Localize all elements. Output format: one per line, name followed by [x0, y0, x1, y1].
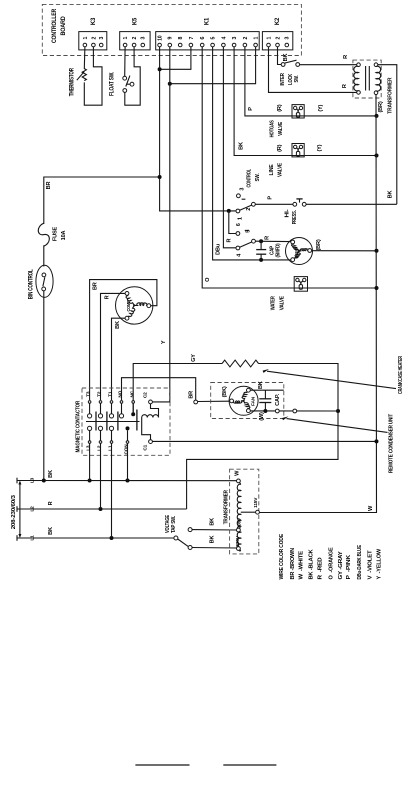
- transformer core: [365, 66, 367, 91]
- svg-text:W: W: [368, 505, 374, 511]
- svg-text:BOARD: BOARD: [61, 16, 67, 36]
- svg-text:SW.: SW.: [294, 75, 300, 82]
- junction L1 on line3: [110, 536, 114, 540]
- tap 115V: [241, 510, 260, 514]
- contactor pole L2: [98, 403, 107, 443]
- svg-text:2: 2: [246, 208, 252, 211]
- junction BR branch on pin10 line: [158, 175, 162, 179]
- svg-text:L1: L1: [29, 535, 35, 541]
- svg-text:(BR): (BR): [316, 239, 322, 250]
- label FUSE 10A: [53, 226, 67, 241]
- interlock switch: [281, 60, 299, 66]
- svg-text:10A: 10A: [61, 231, 67, 241]
- wire K1 pin4 R to control sw4: [223, 47, 236, 248]
- fuse 10A: [38, 223, 49, 246]
- tap 230V: [237, 547, 241, 551]
- svg-text:TAP SW.: TAP SW.: [171, 515, 177, 533]
- svg-text:R: R: [48, 501, 54, 505]
- svg-text:K3: K3: [91, 17, 97, 25]
- svg-text:L3: L3: [85, 445, 91, 451]
- svg-text:230V: 230V: [235, 535, 241, 546]
- input line L2 R: [17, 508, 187, 510]
- svg-text:7: 7: [189, 37, 195, 40]
- svg-text:R -RED: R -RED: [318, 557, 324, 579]
- fan motor: [229, 386, 258, 415]
- wire K2 pin1 R to transformer: [269, 47, 357, 93]
- wire K1 pin9 Y to contactor C2: [153, 47, 170, 402]
- svg-text:9: 9: [168, 37, 174, 40]
- svg-text:VALVE: VALVE: [280, 296, 286, 310]
- wire fan feed terminal to fan: [198, 400, 230, 402]
- contactor linkage: [86, 421, 140, 423]
- svg-text:3: 3: [141, 37, 147, 40]
- connector K5: [120, 32, 150, 50]
- label VOLTAGE TAP SW.: [165, 515, 177, 533]
- wire pump to BR bus: [312, 250, 377, 252]
- wire comp R to contactor T2: [101, 293, 126, 400]
- svg-text:(W): (W): [259, 412, 265, 421]
- wire K1 pin1 jog to pin9 line: [170, 47, 256, 84]
- svg-text:CON: CON: [123, 444, 129, 455]
- svg-text:6: 6: [200, 37, 206, 40]
- svg-text:R: R: [104, 295, 110, 299]
- svg-text:L2: L2: [29, 506, 35, 512]
- label CAP (5MFD): [270, 243, 282, 257]
- wire C1 to BR bus: [152, 440, 376, 442]
- svg-text:REMOTE CONDENSER UNIT: REMOTE CONDENSER UNIT: [389, 413, 395, 473]
- svg-text:BR: BR: [189, 391, 195, 399]
- svg-text:5: 5: [245, 230, 251, 233]
- label WATER VALVE: [270, 296, 285, 310]
- wire K1 pin7 jog to pin10 line: [160, 47, 191, 70]
- svg-text:K5: K5: [132, 17, 138, 25]
- transformer primary coil: [354, 63, 360, 94]
- bottom rule 2: [223, 764, 276, 766]
- svg-text:TRANSFORMER: TRANSFORMER: [224, 490, 230, 524]
- wire K1 pin3 BK to line valve line: [234, 47, 376, 156]
- svg-text:BR -BROWN: BR -BROWN: [290, 548, 296, 580]
- input line L1 BK: [17, 537, 174, 539]
- wire fan bottom line: [250, 410, 338, 412]
- svg-text:HOTGAS: HOTGAS: [270, 120, 276, 137]
- svg-text:3: 3: [232, 37, 238, 40]
- fan feed terminal: [194, 400, 198, 404]
- svg-text:BK: BK: [210, 536, 216, 544]
- contactor pole L1: [109, 403, 118, 443]
- junction BR on line1: [42, 479, 46, 483]
- connector K3: [79, 32, 107, 50]
- label LINE VALVE: [269, 163, 284, 177]
- svg-text:L1: L1: [107, 445, 113, 451]
- wire NC GY to crankcase heater: [133, 364, 222, 413]
- svg-text:3: 3: [99, 37, 105, 40]
- label INTER LOCK SW.: [280, 73, 300, 86]
- svg-text:SW.: SW.: [255, 173, 261, 182]
- wire control sw pole2 to pump: [255, 240, 290, 242]
- wire float switch loop to K5 pin2: [125, 47, 140, 105]
- svg-text:208V: 208V: [237, 517, 243, 528]
- line valve solenoid: [292, 144, 304, 157]
- svg-text:R: R: [264, 236, 270, 240]
- svg-text:W -WHITE: W -WHITE: [299, 551, 305, 580]
- wire color code legend: [279, 534, 383, 580]
- svg-text:CONTROLLER: CONTROLLER: [52, 8, 58, 43]
- svg-text:BK: BK: [388, 191, 394, 199]
- capacitor pump 5MFD: [256, 241, 266, 260]
- svg-text:W: W: [235, 470, 241, 476]
- wire BR branch from pin10 line: [44, 177, 160, 224]
- junction control feed: [227, 209, 231, 213]
- crankcase heater resistor: [222, 360, 258, 367]
- svg-text:FUSE: FUSE: [53, 226, 59, 241]
- svg-text:HI-: HI-: [284, 209, 290, 217]
- label CONTROLLER BOARD: [52, 8, 67, 43]
- svg-text:GY -GRAY: GY -GRAY: [338, 551, 344, 580]
- junction pump cap top: [259, 239, 263, 243]
- junction pump on BR bus: [375, 249, 379, 253]
- svg-text:T2: T2: [96, 391, 102, 397]
- svg-text:(R): (R): [277, 104, 283, 112]
- svg-text:5: 5: [211, 37, 217, 40]
- wire bin control to input line L3: [43, 291, 45, 481]
- float switch: [123, 76, 134, 93]
- hot gas valve solenoid: [292, 105, 304, 118]
- wire fuse to bin control: [43, 245, 45, 266]
- svg-text:PRESS.: PRESS.: [292, 210, 298, 224]
- svg-text:115V: 115V: [253, 497, 259, 508]
- svg-text:BK -BLACK: BK -BLACK: [308, 549, 314, 579]
- wire transformer BK down right side: [378, 65, 397, 205]
- svg-text:(BR): (BR): [378, 101, 384, 112]
- magnetic contactor dashed box: [82, 388, 170, 455]
- svg-text:1: 1: [123, 37, 129, 40]
- input terminal ticks: [16, 478, 18, 484]
- svg-text:MAGNETIC CONTACTOR: MAGNETIC CONTACTOR: [76, 401, 82, 453]
- svg-text:P -PINK: P -PINK: [346, 555, 352, 580]
- hi-press switch: [293, 199, 306, 206]
- wire K1 pin10 BR feed to control switch: [160, 47, 236, 211]
- svg-text:2: 2: [275, 37, 281, 40]
- svg-text:BR: BR: [92, 282, 98, 290]
- wire contactor CON down: [127, 443, 129, 480]
- contactor pole L3: [88, 403, 97, 443]
- input line L3 BK: [17, 480, 237, 482]
- svg-text:BK: BK: [283, 54, 289, 62]
- control switch contacts: [236, 194, 255, 250]
- svg-text:BK: BK: [115, 321, 121, 329]
- wire tap sw to 208V: [192, 529, 236, 531]
- wire comp BK to contactor T1: [112, 318, 126, 400]
- BR bus from transformer: [259, 95, 376, 513]
- wire hi-press to BK corner: [306, 203, 397, 205]
- svg-text:R: R: [343, 55, 349, 59]
- water valve solenoid: [294, 277, 307, 292]
- wire K2 pin2 to interlock switch: [278, 47, 282, 65]
- svg-text:THERMISTOR: THERMISTOR: [70, 68, 76, 97]
- svg-text:R: R: [227, 239, 233, 243]
- transformer dashed box: [353, 60, 381, 98]
- svg-text:(Y): (Y): [317, 144, 323, 151]
- junction L2 on line2: [99, 507, 103, 511]
- junction fan return on heater wire: [336, 409, 340, 413]
- svg-text:BK: BK: [48, 527, 54, 535]
- wire control sw2 P to hi-press: [255, 203, 293, 205]
- svg-text:C1: C1: [142, 444, 148, 450]
- svg-text:BIN CONTROL: BIN CONTROL: [29, 269, 35, 299]
- label HI- PRESS.: [284, 209, 298, 224]
- wire thermistor loop to K3 pin2: [84, 47, 102, 105]
- wire contactor L2 down: [100, 443, 102, 509]
- svg-text:1: 1: [238, 217, 244, 220]
- control transformer dashed box: [230, 469, 259, 554]
- svg-text:(BK): (BK): [222, 386, 228, 397]
- svg-text:VALVE: VALVE: [278, 163, 284, 177]
- svg-text:L3: L3: [29, 477, 35, 483]
- svg-text:INTER: INTER: [280, 73, 286, 86]
- junction L3 on line1: [88, 479, 92, 483]
- svg-text:NO: NO: [117, 390, 123, 397]
- svg-text:O -ORANGE: O -ORANGE: [329, 547, 335, 579]
- connector K2: [262, 32, 292, 50]
- wire tap sw to 230V: [192, 547, 236, 550]
- svg-text:3: 3: [240, 188, 246, 191]
- svg-text:K2: K2: [275, 17, 281, 25]
- svg-text:K1: K1: [205, 17, 211, 25]
- wire K1 pin5 DBu to pump line: [213, 47, 291, 260]
- svg-text:LOCK: LOCK: [288, 74, 294, 85]
- wire control feed branch to sw5: [229, 211, 236, 234]
- svg-text:P: P: [268, 196, 274, 200]
- controller board dashed outline: [42, 4, 301, 55]
- contactor coil: [142, 404, 159, 440]
- svg-text:6: 6: [236, 223, 242, 226]
- svg-text:C2: C2: [142, 392, 148, 398]
- svg-text:2: 2: [91, 37, 97, 40]
- svg-text:2: 2: [132, 37, 138, 40]
- svg-text:DBu-DARK BLUE: DBu-DARK BLUE: [357, 545, 363, 580]
- wire K1 pin2 P to hot gas valve line: [245, 47, 377, 116]
- svg-text:BK: BK: [48, 470, 54, 478]
- svg-text:R: R: [342, 84, 348, 88]
- bottom rule 1: [135, 764, 189, 766]
- junction pin7/pin10: [158, 67, 162, 71]
- svg-text:1: 1: [266, 37, 272, 40]
- svg-text:1: 1: [83, 37, 89, 40]
- svg-text:BK: BK: [239, 142, 245, 150]
- svg-text:LINE: LINE: [269, 164, 275, 175]
- wire comp OL loop to contactor T3: [90, 280, 157, 400]
- dimension arrow 208-230: [19, 483, 21, 537]
- wire K3 pin1 to thermistor: [83, 47, 86, 69]
- contactor NO contact: [119, 403, 129, 443]
- connector K1: [156, 32, 260, 50]
- svg-text:BR: BR: [46, 182, 52, 190]
- svg-text:WIRE COLOR CODE: WIRE COLOR CODE: [279, 534, 285, 580]
- svg-text:8: 8: [178, 37, 184, 40]
- svg-text:WATER: WATER: [270, 296, 276, 310]
- label CONTROL SW.: [246, 169, 261, 188]
- wire heater to R return: [187, 364, 338, 510]
- svg-text:4: 4: [221, 37, 227, 40]
- svg-text:P: P: [248, 107, 254, 111]
- junction C1 on BR bus: [375, 439, 379, 443]
- svg-text:BK: BK: [210, 518, 216, 526]
- svg-text:2: 2: [243, 37, 249, 40]
- svg-text:(Y): (Y): [318, 104, 324, 111]
- svg-text:DBu: DBu: [216, 243, 222, 255]
- wire K1 pin6 O to water valve line: [202, 47, 376, 288]
- svg-text:T3: T3: [85, 391, 91, 397]
- fan line connector circles: [275, 409, 279, 413]
- label HOT GAS VALVE: [270, 120, 285, 137]
- svg-text:T1: T1: [107, 391, 113, 397]
- svg-text:TRANSFORMER: TRANSFORMER: [388, 78, 394, 114]
- svg-text:V -VIOLET: V -VIOLET: [367, 550, 373, 580]
- junction CON on line1: [126, 479, 130, 483]
- svg-text:CRANKCASE HEATER: CRANKCASE HEATER: [398, 356, 404, 394]
- svg-text:VALVE: VALVE: [278, 122, 284, 136]
- tap 208V: [237, 528, 241, 532]
- wire K5 pin1 to float switch: [124, 47, 126, 77]
- junction water valve on BR bus: [375, 286, 379, 290]
- fan capacitor: [259, 390, 271, 411]
- svg-text:(R): (R): [277, 144, 283, 152]
- junction hot gas on BR bus: [375, 114, 379, 118]
- svg-text:PUMP: PUMP: [294, 246, 300, 258]
- svg-text:COMP: COMP: [126, 300, 132, 312]
- svg-text:FAN: FAN: [250, 396, 256, 406]
- wire fan BK top: [250, 389, 283, 391]
- wire contactor L1 down: [111, 443, 113, 538]
- wire NO jumper to fan terminal: [122, 378, 196, 400]
- transformer secondary coil: [374, 63, 380, 95]
- svg-text:10: 10: [158, 35, 164, 41]
- wire contactor L3 down: [89, 443, 91, 480]
- bin control: [36, 265, 53, 297]
- control transformer coil: [237, 479, 241, 552]
- svg-text:(5MFD): (5MFD): [275, 243, 281, 257]
- svg-text:GY: GY: [191, 354, 197, 362]
- voltage tap switch: [174, 528, 192, 550]
- junction fan cap bottom: [263, 409, 267, 413]
- remote condenser dashed box: [211, 383, 284, 419]
- pump motor: [286, 238, 313, 265]
- svg-text:FLOAT SW.: FLOAT SW.: [110, 72, 116, 96]
- junction line valve on BR bus: [375, 154, 379, 158]
- arrow to crankcase heater: [267, 371, 396, 388]
- svg-text:Y -YELLOW: Y -YELLOW: [377, 548, 383, 579]
- thermistor: [77, 69, 87, 81]
- svg-text:BK: BK: [258, 381, 264, 389]
- svg-text:L2: L2: [96, 445, 102, 451]
- contactor NC contact: [131, 403, 137, 430]
- junction pump cap bottom: [259, 258, 263, 262]
- svg-text:VOLTAGE: VOLTAGE: [165, 515, 171, 533]
- svg-text:CAP.: CAP.: [275, 393, 281, 405]
- wire interlock to transformer: [300, 64, 357, 66]
- junction pin1/pin9: [168, 82, 172, 86]
- svg-text:NC: NC: [130, 390, 136, 397]
- svg-text:1: 1: [254, 37, 260, 40]
- svg-text:3: 3: [285, 37, 291, 40]
- svg-text:208-230/60/3: 208-230/60/3: [11, 495, 17, 529]
- svg-text:Y: Y: [161, 340, 167, 344]
- svg-text:CONTROL: CONTROL: [246, 169, 252, 188]
- arrow to remote condenser: [287, 419, 388, 433]
- comp motor: [116, 287, 153, 324]
